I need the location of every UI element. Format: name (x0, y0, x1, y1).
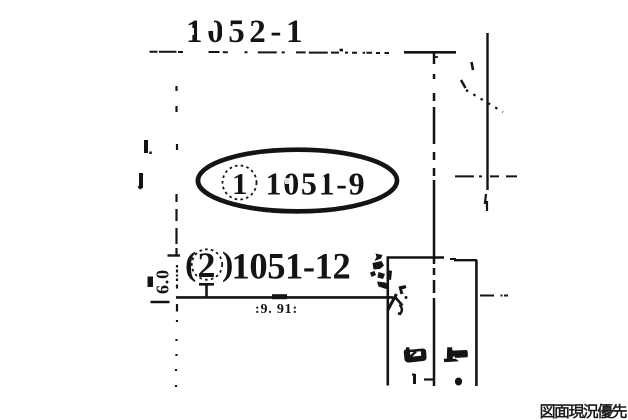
svg-text:(: ( (185, 246, 196, 283)
svg-text:6.0: 6.0 (153, 269, 173, 294)
svg-text:1: 1 (232, 166, 248, 201)
svg-text:1051-9: 1051-9 (266, 166, 367, 202)
svg-text::9. 91:: :9. 91: (255, 302, 298, 317)
svg-text:2: 2 (198, 245, 216, 285)
svg-text:1051-12: 1051-12 (232, 246, 351, 287)
